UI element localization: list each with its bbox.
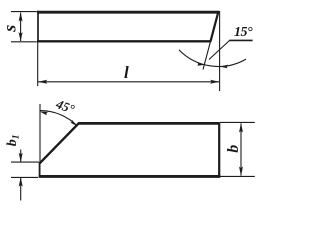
b bottom extension line xyxy=(220,175,255,177)
bevel thin extension xyxy=(203,42,210,70)
lower view: bottom edge xyxy=(39,175,221,178)
upper view: bevel edge 15deg xyxy=(210,11,218,42)
lower view: 45deg chamfer edge xyxy=(40,123,80,164)
b1 dimension upper tail xyxy=(20,150,22,162)
lower view: top edge xyxy=(78,122,219,125)
45deg angle arc xyxy=(40,111,77,126)
s arrow up xyxy=(19,12,23,21)
svg-text:b1: b1 xyxy=(5,134,22,146)
15deg leader underline xyxy=(229,39,252,41)
l arrow left xyxy=(38,80,47,84)
15deg leader diagonal xyxy=(209,40,230,59)
s top extension line xyxy=(11,11,37,13)
upper view: top edge xyxy=(37,11,219,14)
15deg arc left arrowhead (tip on bevel extension) xyxy=(196,62,204,66)
right extension line xyxy=(219,11,221,91)
b1 top extension line xyxy=(11,161,39,163)
b1 lower arrow (points up) xyxy=(19,177,23,186)
b top extension line xyxy=(220,121,255,123)
lower view: left edge xyxy=(39,162,41,178)
b arrow down xyxy=(239,167,243,176)
b1 bottom extension line xyxy=(11,176,38,178)
b dimension line xyxy=(240,123,242,175)
svg-text:b: b xyxy=(225,145,242,153)
s dimension line xyxy=(20,13,22,41)
b1 dimension lower tail xyxy=(20,178,22,201)
upper view: left edge xyxy=(37,11,39,43)
15deg arc right arrowhead (tip on vertical extension) xyxy=(220,65,228,69)
svg-text:l: l xyxy=(124,63,129,82)
svg-text:s: s xyxy=(0,25,20,33)
s bottom extension line xyxy=(11,41,37,43)
45deg vertical extension line xyxy=(39,104,41,162)
45deg arc lower arrowhead (tip on chamfer) xyxy=(71,120,78,127)
l dimension line xyxy=(38,81,219,83)
15deg angle arc xyxy=(179,50,246,67)
45deg arc top arrowhead xyxy=(40,112,49,116)
b arrow up xyxy=(239,123,243,132)
s arrow down xyxy=(19,32,23,41)
b1 upper arrow (points down) xyxy=(19,153,23,162)
upper view: bottom edge xyxy=(37,40,211,42)
left extension line below (from upper left edge) xyxy=(37,42,39,86)
svg-text:15°: 15° xyxy=(234,25,253,40)
l arrow right xyxy=(210,80,219,84)
lower view: right edge xyxy=(218,122,220,177)
